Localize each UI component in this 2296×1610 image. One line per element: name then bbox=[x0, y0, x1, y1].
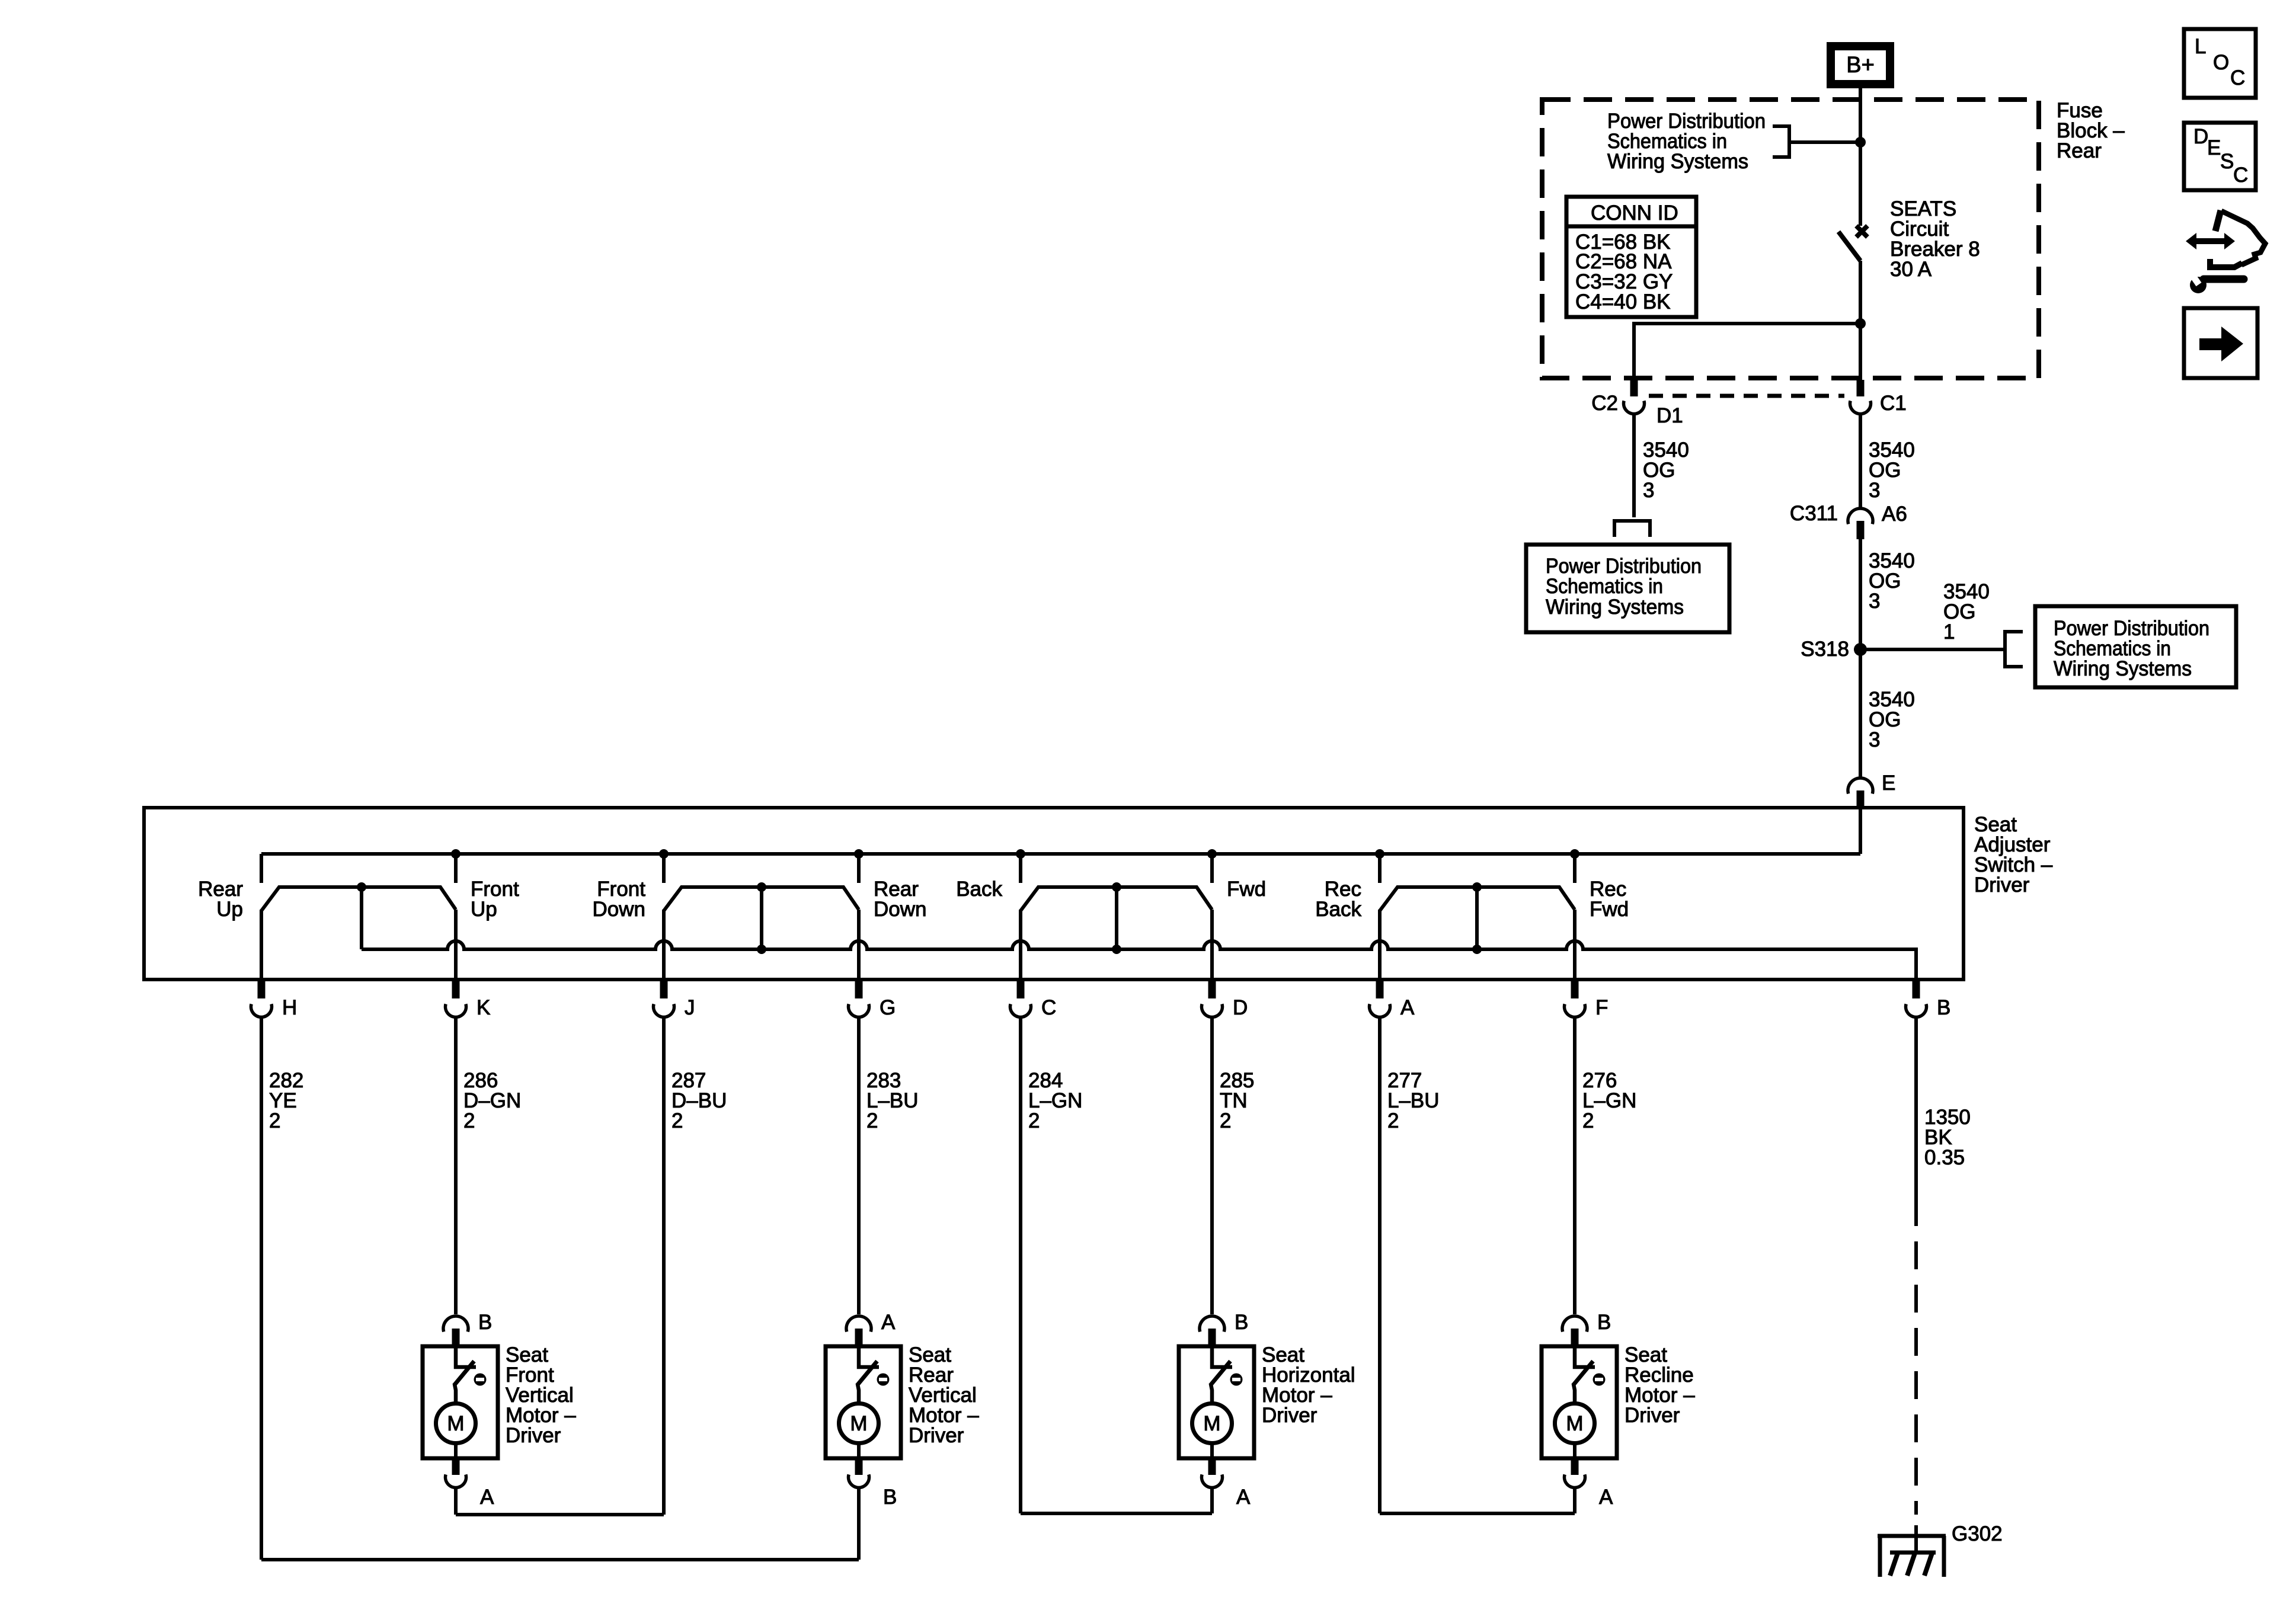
switch contact Rear Up / Front Up bbox=[261, 887, 456, 911]
splice S318 bbox=[1854, 643, 1867, 656]
motor 1 return wire to pin J bbox=[454, 1487, 458, 1515]
svg-text:C2: C2 bbox=[1591, 392, 1618, 415]
connector C1 bbox=[1857, 380, 1865, 396]
internal circuit breaker bbox=[1212, 1346, 1232, 1367]
svg-text:J: J bbox=[685, 996, 695, 1019]
switch column wires to pins bbox=[260, 910, 263, 978]
pin H bbox=[258, 978, 266, 998]
motor box bbox=[423, 1346, 498, 1458]
svg-text:3: 3 bbox=[1643, 479, 1654, 502]
svg-text:E: E bbox=[2207, 136, 2221, 159]
svg-text:2: 2 bbox=[1220, 1109, 1231, 1132]
svg-text:B: B bbox=[478, 1311, 492, 1334]
internal circuit breaker bbox=[859, 1346, 879, 1367]
svg-text:G302: G302 bbox=[1952, 1522, 2003, 1545]
ground wire solid part bbox=[1914, 1016, 1918, 1226]
svg-text:Driver: Driver bbox=[1262, 1404, 1318, 1427]
connector C311 pin A6 bbox=[1848, 508, 1873, 524]
SEATS circuit breaker 8 contact x bbox=[1856, 226, 1868, 237]
svg-text:O: O bbox=[2213, 51, 2229, 74]
svg-text:A: A bbox=[881, 1311, 896, 1334]
ground wire dashed part bbox=[1914, 1241, 1918, 1515]
ground G302 symbol bbox=[1914, 1525, 1918, 1553]
motor 4 return wire to pin A bbox=[1573, 1487, 1576, 1513]
svg-text:M: M bbox=[850, 1412, 867, 1435]
svg-text:3: 3 bbox=[1869, 479, 1880, 502]
svg-text:K: K bbox=[477, 996, 490, 1019]
svg-text:2: 2 bbox=[866, 1109, 878, 1132]
motor box bbox=[1542, 1346, 1617, 1458]
switch supply bus bbox=[261, 852, 1860, 856]
svg-text:Driver: Driver bbox=[909, 1424, 964, 1447]
svg-text:C4=40 BK: C4=40 BK bbox=[1575, 290, 1671, 313]
svg-text:D: D bbox=[1233, 996, 1248, 1019]
wire B+ to circuit breaker bbox=[1859, 88, 1862, 226]
svg-text:Back: Back bbox=[1315, 898, 1361, 921]
svg-text:Down: Down bbox=[593, 898, 645, 921]
motor winding bbox=[436, 1404, 476, 1443]
svg-text:Schematics in: Schematics in bbox=[1546, 575, 1663, 598]
pin B top bbox=[1200, 1316, 1224, 1331]
wire bracket to B+ feed bbox=[1789, 140, 1860, 144]
DESC icon box bbox=[2184, 123, 2256, 190]
svg-text:2: 2 bbox=[269, 1109, 280, 1132]
svg-text:D1: D1 bbox=[1657, 404, 1683, 427]
svg-text:Fwd: Fwd bbox=[1590, 898, 1629, 921]
switch contact Back / Fwd bbox=[1021, 887, 1212, 911]
pin C bbox=[1017, 978, 1025, 998]
svg-text:1: 1 bbox=[1943, 620, 1955, 644]
wire 3540 OG 3 from C2 bbox=[1632, 413, 1636, 517]
svg-text:A: A bbox=[1236, 1486, 1251, 1509]
internal circuit breaker bbox=[456, 1346, 476, 1367]
svg-text:B: B bbox=[1937, 996, 1950, 1019]
thermal protector bbox=[1593, 1374, 1606, 1386]
left power distribution reference box bbox=[1526, 545, 1729, 632]
svg-text:Fwd: Fwd bbox=[1227, 878, 1266, 901]
svg-text:Rear: Rear bbox=[2057, 139, 2102, 162]
motor winding bbox=[839, 1404, 879, 1443]
pin B bbox=[1913, 978, 1920, 998]
svg-text:Driver: Driver bbox=[1974, 873, 2030, 897]
motor box bbox=[1179, 1346, 1254, 1458]
junction dot breaker output bbox=[1855, 318, 1866, 329]
svg-text:A6: A6 bbox=[1882, 502, 1907, 526]
svg-text:0.35: 0.35 bbox=[1924, 1146, 1965, 1169]
column drop wires bbox=[454, 1016, 458, 1314]
seat adjuster switch box bbox=[144, 808, 1964, 980]
switch contact Rec Back / Rec Fwd bbox=[1380, 887, 1575, 911]
wire 3540 OG 1 branch bbox=[1860, 648, 2005, 651]
circuit breaker blade bbox=[1838, 232, 1860, 261]
svg-text:2: 2 bbox=[463, 1109, 475, 1132]
svg-text:H: H bbox=[282, 996, 297, 1019]
svg-text:G: G bbox=[880, 996, 896, 1019]
wire breaker to output junction bbox=[1859, 261, 1862, 380]
fuse block dashed outline bbox=[1542, 100, 2039, 378]
svg-text:A: A bbox=[1599, 1486, 1613, 1509]
pin J bbox=[660, 978, 668, 998]
svg-text:E: E bbox=[1882, 772, 1895, 795]
svg-text:M: M bbox=[1566, 1412, 1583, 1435]
svg-text:3: 3 bbox=[1869, 590, 1880, 613]
wire E into switch bus bbox=[1859, 808, 1862, 854]
svg-text:2: 2 bbox=[1028, 1109, 1040, 1132]
switch common output bus with wire hops bbox=[362, 941, 1916, 978]
motor winding bbox=[1555, 1404, 1595, 1443]
pin A top bbox=[846, 1316, 871, 1331]
bus stubs and junction dots bbox=[260, 854, 263, 883]
forward arrow icon box bbox=[2184, 308, 2257, 378]
connector mating dashed line bbox=[1649, 394, 1844, 398]
svg-text:C: C bbox=[1041, 996, 1056, 1019]
switch contact Front Down / Rear Down bbox=[664, 887, 859, 911]
svg-text:A: A bbox=[480, 1486, 494, 1509]
svg-text:Back: Back bbox=[956, 878, 1002, 901]
svg-text:30 A: 30 A bbox=[1890, 258, 1932, 281]
LOC icon box bbox=[2184, 29, 2256, 98]
connector C2 pin D1 bbox=[1630, 380, 1638, 396]
connector E of seat adjuster switch bbox=[1848, 778, 1873, 793]
wire breaker output to C2 bbox=[1634, 324, 1860, 380]
bracket to left reference box bbox=[1614, 521, 1650, 537]
junction dot on B+ feed bbox=[1855, 137, 1866, 148]
wire 3540 OG 3 S318 to E bbox=[1859, 649, 1862, 778]
pin G bbox=[855, 978, 863, 998]
svg-text:C: C bbox=[2230, 66, 2245, 89]
svg-text:C311: C311 bbox=[1790, 502, 1838, 525]
pin B top bbox=[1562, 1316, 1587, 1331]
svg-text:A: A bbox=[1400, 996, 1415, 1019]
svg-text:Wiring Systems: Wiring Systems bbox=[1607, 150, 1748, 173]
svg-text:2: 2 bbox=[671, 1109, 683, 1132]
svg-text:2: 2 bbox=[1582, 1109, 1594, 1132]
right power distribution reference box bbox=[2035, 606, 2236, 687]
pin A bottom bbox=[1208, 1458, 1216, 1475]
svg-text:L: L bbox=[2195, 35, 2206, 58]
svg-text:B: B bbox=[883, 1486, 897, 1509]
svg-text:F: F bbox=[1595, 996, 1608, 1019]
diagnostic icon wrench bbox=[2190, 277, 2207, 293]
svg-text:Wiring Systems: Wiring Systems bbox=[1546, 596, 1684, 619]
svg-text:B: B bbox=[1235, 1311, 1248, 1334]
motor winding bbox=[1192, 1404, 1232, 1443]
svg-text:3: 3 bbox=[1869, 728, 1880, 751]
B+ battery positive voltage box bbox=[1831, 46, 1890, 84]
wire 3540 OG 3 C311 to S318 bbox=[1859, 539, 1862, 649]
wire 3540 OG 3 from C1 bbox=[1859, 413, 1862, 508]
pin D bbox=[1208, 978, 1216, 998]
svg-text:CONN ID: CONN ID bbox=[1591, 201, 1678, 225]
svg-text:Driver: Driver bbox=[1625, 1404, 1680, 1427]
svg-text:S318: S318 bbox=[1801, 638, 1849, 661]
thermal protector bbox=[474, 1374, 487, 1386]
svg-text:Up: Up bbox=[471, 898, 497, 921]
motor 2 return wire to pin H bbox=[857, 1487, 861, 1560]
diagnostic icon animal head bbox=[2215, 210, 2221, 231]
bracket power distribution feed bbox=[1773, 126, 1789, 157]
svg-text:C1: C1 bbox=[1880, 392, 1907, 415]
motor box bbox=[826, 1346, 901, 1458]
thermal protector bbox=[877, 1374, 890, 1386]
pin A bottom bbox=[1571, 1458, 1579, 1475]
svg-text:S: S bbox=[2220, 150, 2234, 173]
svg-text:Wiring Systems: Wiring Systems bbox=[2054, 657, 2192, 680]
pin B bottom bbox=[855, 1458, 863, 1475]
svg-text:2: 2 bbox=[1387, 1109, 1399, 1132]
svg-text:C: C bbox=[2233, 164, 2248, 187]
CONN ID table box bbox=[1566, 197, 1696, 317]
bracket to right reference box bbox=[2005, 632, 2023, 667]
svg-text:M: M bbox=[447, 1412, 464, 1435]
svg-text:Down: Down bbox=[874, 898, 926, 921]
pin F bbox=[1571, 978, 1579, 998]
svg-text:B: B bbox=[1597, 1311, 1611, 1334]
svg-text:Driver: Driver bbox=[506, 1424, 561, 1447]
diagnostic icon double arrow bbox=[2195, 238, 2225, 244]
pin B top bbox=[443, 1316, 468, 1331]
svg-text:M: M bbox=[1203, 1412, 1220, 1435]
pin K bbox=[452, 978, 460, 998]
pin A bottom bbox=[452, 1458, 460, 1475]
svg-text:B+: B+ bbox=[1846, 53, 1875, 78]
svg-text:Up: Up bbox=[216, 898, 243, 921]
internal circuit breaker bbox=[1575, 1346, 1595, 1367]
motor 3 return wire to pin C bbox=[1210, 1487, 1214, 1513]
svg-text:D: D bbox=[2193, 125, 2208, 148]
thermal protector bbox=[1230, 1374, 1243, 1386]
pin A bbox=[1376, 978, 1384, 998]
